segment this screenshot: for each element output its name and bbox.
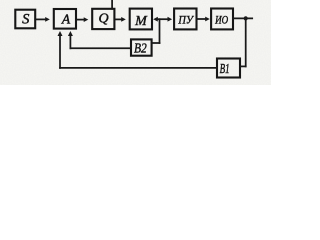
svg-text:M: M	[134, 14, 148, 29]
svg-text:A: A	[61, 12, 71, 27]
svg-text:Q: Q	[98, 11, 108, 26]
svg-text:S: S	[22, 12, 30, 28]
svg-text:В1: В1	[220, 62, 230, 77]
svg-text:ИО: ИО	[214, 13, 228, 27]
svg-text:ПУ: ПУ	[177, 13, 194, 27]
svg-text:В2: В2	[134, 42, 147, 57]
